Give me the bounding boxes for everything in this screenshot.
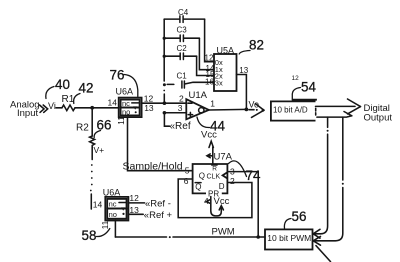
analog switch U6A box (119, 98, 142, 118)
capacitor C1 (182, 81, 185, 88)
junction node R1/R2 (90, 106, 94, 110)
dashed wire Vo to A/D (249, 109, 254, 111)
analog switch U6A (ref) box (105, 197, 128, 221)
svg-text:PWM: PWM (212, 226, 235, 237)
leader 76 (124, 75, 138, 97)
flip-flop U7A box (193, 164, 228, 193)
wire C3 to mux pin14 (199, 38, 214, 69)
svg-text:U7A: U7A (214, 152, 233, 163)
svg-text:40: 40 (55, 77, 70, 92)
svg-text:13: 13 (144, 103, 154, 113)
U6A(ref) inner cell nc (107, 199, 126, 209)
svg-text:12: 12 (205, 54, 214, 63)
wire C1 to mux pin16 (185, 82, 214, 84)
leader 66 (94, 131, 100, 138)
wire pin11 control from PWM line (114, 221, 116, 238)
bus feedback wire V2 (342, 117, 344, 180)
wire R2 to V+ (91, 148, 93, 160)
wire C2 to mux pin15 (197, 56, 214, 75)
svg-text:Output: Output (364, 112, 393, 123)
svg-text:6: 6 (184, 176, 189, 186)
svg-text:76: 76 (110, 68, 125, 83)
op-amp U1A triangle (186, 99, 209, 119)
svg-text:11: 11 (116, 116, 126, 125)
svg-text:Q: Q (199, 172, 205, 181)
capacitor C1 dashed left lead (167, 83, 174, 85)
label Analog Input (10, 100, 40, 119)
svg-text:5: 5 (185, 165, 190, 175)
svg-text:«Ref: «Ref (170, 121, 191, 132)
resistor R2 (90, 136, 95, 148)
wire pin3 from Ref tee (164, 112, 186, 114)
svg-text:C1: C1 (177, 72, 188, 81)
wire C4 to mux pin12 (205, 19, 214, 62)
junction caps bus on pin2 wire (163, 101, 167, 105)
capacitor C2 (164, 53, 196, 60)
op-amp U1A output bubble (199, 108, 204, 113)
svg-text:13: 13 (239, 66, 248, 75)
svg-text:«Ref +: «Ref + (144, 210, 173, 221)
svg-text:82: 82 (249, 38, 264, 53)
svg-text:R2: R2 (76, 123, 89, 134)
junction Ref tee (163, 111, 167, 115)
svg-text:R1: R1 (62, 94, 75, 105)
wire tee down to Ref connector (164, 113, 169, 126)
svg-text:nc: nc (109, 200, 117, 209)
svg-text:11: 11 (100, 220, 110, 229)
junction PWM/CLK (256, 235, 260, 239)
wire U1A output to Vo node (209, 108, 247, 111)
svg-text:no: no (122, 108, 130, 117)
wire pin4 to Vcc arrow hook (211, 197, 224, 216)
junction Vo node (245, 108, 249, 112)
PWM box (265, 229, 313, 249)
svg-text:10 bit PWM: 10 bit PWM (267, 233, 311, 243)
leader 82 (239, 51, 250, 55)
capacitor bus dashed continuation to pin2 node (163, 83, 166, 91)
svg-text:2: 2 (179, 93, 184, 103)
capacitor C3 (164, 35, 199, 42)
second bus line with small arrow (317, 112, 352, 118)
svg-text:R: R (212, 165, 217, 172)
U1A plus sign (188, 112, 192, 116)
wire R1 to U6A pin14 (75, 107, 119, 109)
dotted continuation V+ down (90, 164, 93, 191)
bus feedback wire V1 (327, 117, 329, 127)
leader U7A arrow (207, 154, 213, 158)
leader 56 (284, 219, 291, 229)
U7A notQ label (195, 183, 201, 192)
svg-text:D: D (219, 182, 225, 191)
U7A clear pin mark R (212, 165, 217, 172)
diagonal lead-in bottom right (316, 246, 331, 262)
svg-text:no: no (109, 210, 117, 219)
junction C3 on bus (163, 37, 166, 40)
svg-text:Vcc: Vcc (201, 129, 217, 140)
A/D box dashed right edge (315, 108, 317, 115)
svg-text:Vi: Vi (48, 101, 56, 111)
resistor R1 (62, 105, 75, 111)
svg-text:66: 66 (97, 118, 112, 133)
svg-text:C3: C3 (177, 25, 188, 34)
leader 40 (46, 87, 54, 99)
wire pin13 to Ref+ connector (128, 213, 143, 215)
svg-text:56: 56 (292, 209, 307, 224)
svg-text:10 bit A/D: 10 bit A/D (273, 105, 308, 114)
svg-text:Input: Input (17, 108, 38, 119)
label Digital Output (364, 103, 393, 123)
svg-text:Q: Q (195, 183, 201, 192)
wire U5A pin13 to Vo node (237, 75, 247, 110)
wire pin12 to Ref- connector (128, 202, 144, 204)
capacitor bus vertical (163, 19, 165, 81)
svg-text:Sample/Hold: Sample/Hold (123, 160, 183, 172)
svg-text:U6A: U6A (116, 87, 134, 97)
arrow into A/D (252, 104, 265, 118)
svg-text:58: 58 (82, 228, 97, 243)
bus arrow to digital output (316, 99, 361, 114)
wire D pin2 to notQ loop (178, 179, 252, 218)
svg-text:12: 12 (129, 193, 139, 203)
svg-text:16: 16 (205, 77, 214, 86)
svg-text:1: 1 (210, 99, 215, 109)
U6A(ref) inner cell no (107, 207, 126, 218)
wire dangling pin14 of U6B (90, 194, 92, 209)
U7A clock wedge (223, 172, 228, 178)
power symbol Vcc arrow for U7A pin1 (209, 141, 213, 164)
junction C2 on bus (163, 55, 166, 58)
U6A inner cell nc (121, 99, 140, 108)
svg-text:42: 42 (79, 81, 94, 96)
U7A pin4 arrow mark (206, 200, 209, 203)
svg-text:14: 14 (108, 98, 118, 108)
wire PWM output line (115, 236, 166, 238)
wire Vi to R1 (56, 107, 62, 109)
U6A inner cell no (121, 106, 140, 116)
svg-text:54: 54 (301, 80, 316, 95)
svg-text:12: 12 (292, 75, 300, 82)
capacitor C4 (164, 16, 204, 23)
U1A minus sign (188, 102, 192, 104)
leader 42 (74, 94, 80, 104)
leader 54 (292, 88, 300, 101)
svg-text:3: 3 (178, 103, 183, 113)
svg-text:2: 2 (230, 176, 235, 186)
A/D converter box (271, 100, 317, 121)
leader 74 (229, 161, 247, 177)
svg-text:«Ref -: «Ref - (145, 199, 171, 210)
input chevrons (40, 105, 48, 112)
svg-text:U1A: U1A (189, 90, 208, 101)
mux U5A box (214, 54, 237, 91)
wire U6A pin12 to U1A pin2 (142, 102, 187, 104)
leader 58 (97, 229, 110, 237)
svg-text:U6A: U6A (103, 187, 121, 197)
wire junction to R2 (91, 108, 93, 136)
svg-text:V+: V+ (94, 145, 105, 155)
wire U6A pin11 sample/hold control (128, 117, 193, 171)
svg-text:14: 14 (93, 200, 103, 210)
svg-text:C2: C2 (177, 44, 188, 53)
arrowhead V2 into PWM (313, 236, 320, 245)
arrowhead V1 into PWM (313, 229, 320, 238)
wire CLK pin3 from PWM (227, 172, 258, 237)
leader 44 (197, 117, 210, 128)
svg-text:CLK: CLK (207, 173, 221, 180)
svg-text:3x: 3x (215, 79, 223, 88)
